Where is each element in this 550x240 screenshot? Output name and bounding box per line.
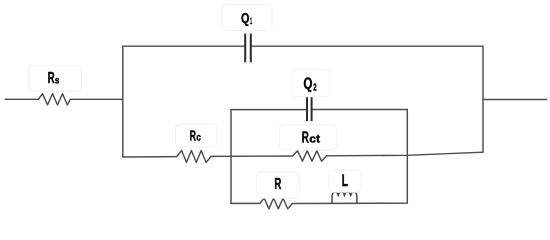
capacitor Q1 bbox=[245, 34, 251, 63]
label Q1 bbox=[241, 10, 252, 27]
wire Rct to right vertical bbox=[327, 152, 483, 156]
capacitor Q2 bbox=[307, 96, 312, 121]
svg-text:s: s bbox=[55, 74, 60, 86]
svg-text:R: R bbox=[274, 176, 281, 193]
wire node A to Rc bbox=[123, 156, 177, 158]
label box L bbox=[329, 170, 361, 193]
label box Q1 bbox=[222, 5, 272, 31]
label box R bbox=[257, 172, 300, 198]
svg-text:Q: Q bbox=[303, 76, 312, 93]
svg-text:Q: Q bbox=[241, 10, 250, 27]
wire input bbox=[5, 98, 38, 100]
label Rct bbox=[302, 129, 321, 146]
wire top left bbox=[123, 45, 245, 47]
svg-text:R: R bbox=[302, 129, 310, 146]
resistor Rs bbox=[38, 94, 70, 105]
label box Rs bbox=[28, 65, 81, 91]
wire Rc to Rct bbox=[211, 155, 293, 157]
wire left vertical bbox=[122, 46, 124, 157]
inductor L bbox=[332, 192, 357, 203]
svg-text:ct: ct bbox=[309, 134, 320, 146]
wire right vertical bbox=[482, 46, 484, 152]
svg-text:2: 2 bbox=[313, 81, 316, 93]
wire inner bottom left bbox=[231, 202, 260, 204]
wire top right bbox=[251, 45, 483, 47]
svg-text:R: R bbox=[48, 70, 55, 87]
resistor Rct bbox=[293, 151, 327, 161]
label Rc bbox=[190, 129, 202, 145]
wire inner top left bbox=[231, 109, 307, 111]
label Rs bbox=[48, 70, 60, 87]
wire inner left vertical bbox=[230, 110, 232, 204]
svg-text:1: 1 bbox=[250, 16, 252, 27]
svg-text:c: c bbox=[196, 132, 201, 144]
wire Rs to left vertical bbox=[70, 98, 123, 100]
label Q2 bbox=[303, 76, 316, 94]
label box Rc bbox=[176, 124, 218, 147]
svg-text:L: L bbox=[342, 172, 348, 190]
wire R to inner right bbox=[292, 202, 407, 204]
resistor Rc bbox=[177, 151, 211, 163]
label box Rct bbox=[279, 125, 336, 150]
wire inner right vertical bbox=[406, 109, 408, 203]
svg-text:R: R bbox=[190, 129, 197, 145]
wire output bbox=[483, 99, 547, 101]
resistor R bbox=[260, 198, 293, 209]
wire inner top right bbox=[312, 109, 408, 111]
label box Q2 bbox=[292, 69, 330, 97]
